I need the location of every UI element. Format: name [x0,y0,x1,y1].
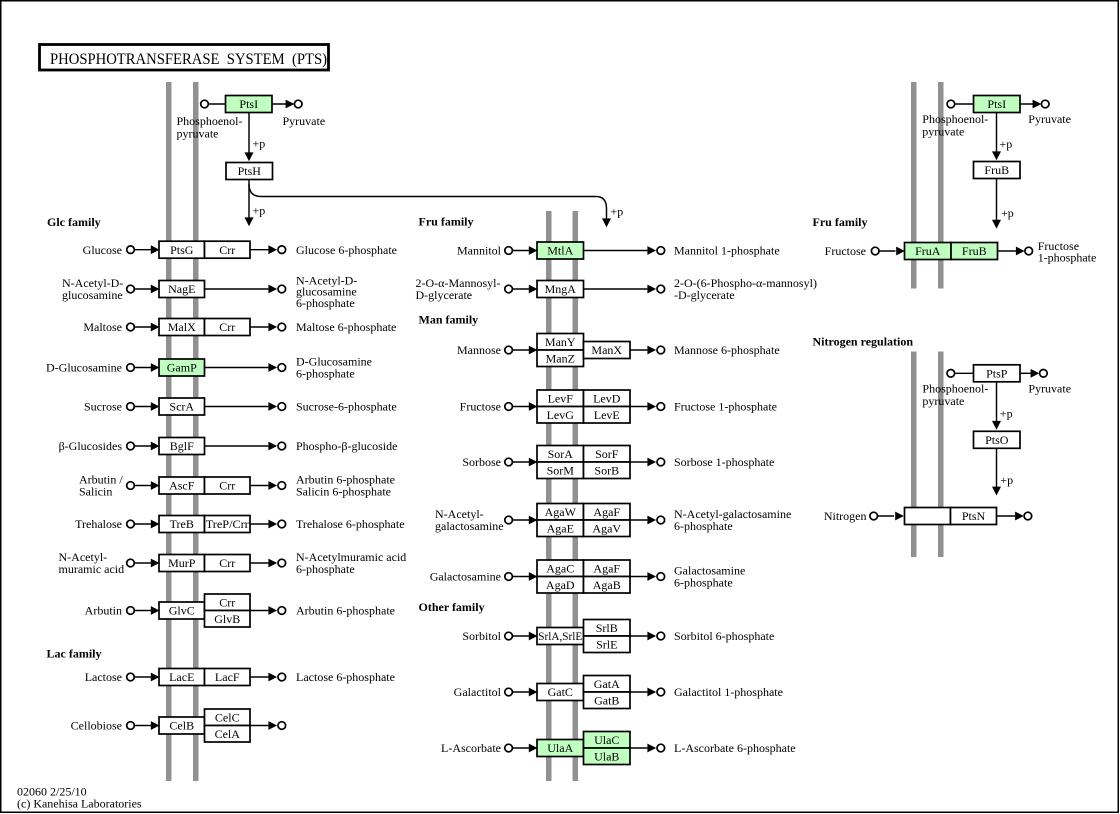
arrowhead into transporter [151,402,160,411]
arrowhead to product [268,285,277,294]
wire out of transporter [250,610,268,612]
compound circle [505,688,513,696]
node product [278,673,286,681]
wire PEP to PtsP [954,372,974,374]
svg-text:+p: +p [1001,206,1014,220]
svg-text:Cellobiose: Cellobiose [71,719,122,733]
svg-text:TreP/Crr: TreP/Crr [206,517,249,531]
arrowhead to product [268,721,277,730]
arrowhead into transporter [529,516,538,525]
compound circle [127,607,135,615]
arrowhead into FruA [896,247,905,256]
gene box MtlA [537,242,584,259]
svg-text:AgaV: AgaV [592,521,621,535]
gene box SorM [537,462,584,479]
wire PtsN out [997,515,1016,517]
compound circle [505,346,513,354]
wire PtsI down [248,113,250,158]
svg-text:CelC: CelC [215,710,240,724]
wire out of transporter [584,288,648,290]
arrowhead to product [268,481,277,490]
membrane bar left pair [166,82,172,781]
node fructose 1-phosphate [1025,247,1033,255]
arrowhead into transporter [151,520,160,529]
svg-text:Lactose: Lactose [85,670,122,684]
svg-text:ScrA: ScrA [169,400,194,414]
node phosphoenolpyruvate (nitrogen) [947,370,955,378]
arrowhead to pyruvate right [1033,100,1042,109]
gene box LacE [159,669,205,686]
svg-text:Lactose 6-phosphate: Lactose 6-phosphate [296,670,395,684]
node product [278,722,286,730]
wire into transporter [512,519,529,521]
compound circle [505,458,513,466]
node phosphoenolpyruvate (right) [947,100,955,108]
wire out of transporter [250,676,268,678]
gene box Crr [205,319,251,336]
svg-text:LevD: LevD [593,391,621,405]
gene box AgaE [537,520,584,537]
gene box FruB [974,162,1021,179]
svg-text:FruB: FruB [984,163,1009,177]
wire into transporter [512,461,529,463]
wire nitrogen in [877,515,894,517]
svg-text:1-phosphate: 1-phosphate [1038,251,1097,265]
svg-text:PHOSPHOTRANSFERASE SYSTEM (P: PHOSPHOTRANSFERASE SYSTEM (PTS) [50,51,327,68]
arrowhead to product [647,346,656,355]
svg-text:MurP: MurP [168,556,196,570]
gene box SorF [584,446,631,463]
gene box LevG [537,407,584,424]
wire into transporter [134,725,151,727]
gene box AgaF [584,504,631,521]
wire out of transporter [630,635,647,637]
svg-text:+p: +p [1000,473,1013,487]
node product [657,346,665,354]
wire into transporter [134,249,151,251]
svg-text:LacF: LacF [215,670,240,684]
gene box AgaB [584,577,631,594]
svg-text:Fructose 1-phosphate: Fructose 1-phosphate [674,400,777,414]
wire PtsH branch to Fru family [249,184,607,223]
arrowhead into transporter [529,402,538,411]
compound circle [127,559,135,567]
gene box AgaD [537,577,584,594]
wire PtsP down [996,382,998,426]
gene box PtsP [974,365,1021,382]
wire out of transporter [630,461,647,463]
svg-text:ManZ: ManZ [546,351,575,365]
svg-text:6-phosphate: 6-phosphate [296,562,355,576]
svg-text:Glc family: Glc family [47,215,101,229]
arrowhead out of PtsN [1015,512,1024,521]
svg-text:(c) Kanehisa Laboratories: (c) Kanehisa Laboratories [17,796,142,810]
compound circle [505,516,513,524]
svg-text:Pyruvate: Pyruvate [1028,112,1071,126]
arrowhead to product [647,688,656,697]
node product [657,688,665,696]
arrowhead into transporter [151,245,160,254]
svg-text:AgaC: AgaC [546,561,574,575]
wire into transporter [134,523,151,525]
svg-text:Glucose 6-phosphate: Glucose 6-phosphate [296,243,397,257]
wire out of transporter [250,249,268,251]
gene box SrlE [584,636,631,653]
compound circle [127,285,135,293]
gene box TreB [159,516,205,533]
compound circle [127,482,135,490]
svg-text:Mannitol: Mannitol [457,244,502,258]
arrowhead into transporter [151,285,160,294]
gene box CelB [159,717,205,734]
gene box NagE [159,281,205,298]
wire PtsI to pyruvate [272,103,290,105]
gene box FruB [951,243,998,260]
svg-text:galactosamine: galactosamine [435,519,504,533]
compound circle [127,323,135,331]
svg-text:UlaB: UlaB [594,749,619,763]
arrowhead into transporter [151,606,160,615]
gene box UlaA [537,740,584,757]
svg-text:PtsI: PtsI [239,97,258,111]
svg-text:Salicin: Salicin [79,485,112,499]
arrowhead to fructose 1-phosphate [1016,247,1025,256]
svg-text:Glucose: Glucose [83,243,122,257]
gene box MalX [159,319,205,336]
node product [278,520,286,528]
wire PEP to PtsI [208,103,226,105]
node product [278,364,286,372]
svg-text:AgaW: AgaW [545,505,577,519]
wire out of transporter [205,288,269,290]
arrowhead into transporter [151,442,160,451]
node phosphoenolpyruvate (left) [201,100,209,108]
svg-text:Sucrose: Sucrose [84,400,122,414]
svg-text:Arbutin 6-phosphate: Arbutin 6-phosphate [296,604,395,618]
svg-text:Salicin 6-phosphate: Salicin 6-phosphate [296,485,391,499]
gene box AgaV [584,520,631,537]
svg-text:Maltose 6-phosphate: Maltose 6-phosphate [296,320,396,334]
svg-text:Trehalose: Trehalose [75,517,122,531]
gene box ManY [537,334,584,351]
arrowhead to product [268,363,277,372]
wire into transporter [134,562,151,564]
compound circle [127,246,135,254]
svg-text:PtsI: PtsI [987,97,1006,111]
gene box SorB [584,462,631,479]
arrowhead to product [268,673,277,682]
compound circle [505,573,513,581]
arrowhead into PtsN complex [895,512,904,521]
svg-text:Nitrogen regulation: Nitrogen regulation [813,335,914,349]
node product [278,285,286,293]
gene box ManX [584,342,631,359]
wire into transporter [512,691,529,693]
wire into transporter [512,349,529,351]
arrowhead into transporter [529,346,538,355]
arrowhead into transporter [151,721,160,730]
gene box GatA [584,676,631,693]
wire out of transporter [250,485,268,487]
svg-text:Mannose 6-phosphate: Mannose 6-phosphate [674,343,780,357]
node product [278,403,286,411]
svg-text:+p: +p [253,204,266,218]
svg-text:Pyruvate: Pyruvate [1028,382,1071,396]
compound circle [505,632,513,640]
svg-text:ManY: ManY [545,335,576,349]
wire into transporter [134,445,151,447]
arrowhead to product [647,246,656,255]
wire out of transporter [250,562,268,564]
wire into transporter [134,485,151,487]
compound circle [505,403,513,411]
arrowhead into transporter [529,744,538,753]
gene box PtsG [159,241,205,258]
node product [657,573,665,581]
svg-text:AgaF: AgaF [593,505,620,519]
svg-text:+p: +p [253,137,266,151]
gene box CelA [205,726,251,743]
svg-text:pyruvate: pyruvate [177,127,219,141]
gene box SrlA,SrlE [537,628,584,645]
arrowhead into transporter [529,285,538,294]
wire into transporter [512,250,529,252]
arrowhead to product [647,632,656,641]
wire fructose in [878,250,895,252]
svg-text:MtlA: MtlA [547,244,573,258]
node product [278,323,286,331]
arrowhead to product [647,744,656,753]
wire into transporter [134,367,151,369]
svg-text:AgaF: AgaF [593,561,620,575]
svg-text:Man family: Man family [419,313,479,327]
arrowhead into transporter [529,572,538,581]
arrowhead to product [268,245,277,254]
wire into transporter [512,576,529,578]
svg-text:AgaE: AgaE [547,521,574,535]
svg-text:CelA: CelA [215,727,241,741]
svg-text:6-phosphate: 6-phosphate [296,367,355,381]
arrowhead to pyruvate [286,100,295,109]
title box PHOSPHOTRANSFERASE SYSTEM (PTS) [40,45,329,71]
svg-text:PtsH: PtsH [238,164,262,178]
wire out of transporter [250,523,268,525]
arrowhead to pyruvate (nitrogen) [1031,369,1040,378]
wire into transporter [512,635,529,637]
gene box PtsI [974,96,1021,113]
gene box GatB [584,692,631,709]
node pyruvate (right) [1041,100,1049,108]
svg-text:Arbutin: Arbutin [85,604,122,618]
svg-text:TreB: TreB [170,517,194,531]
svg-text:GlvB: GlvB [214,612,240,626]
arrowhead to product [647,572,656,581]
node product [278,482,286,490]
svg-text:Other family: Other family [419,600,485,614]
wire out of transporter [630,406,647,408]
gene box AscF [159,477,205,494]
wire PtsH down [248,180,250,223]
svg-text:SorB: SorB [594,463,619,477]
arrowhead to product [647,285,656,294]
compound circle [505,285,513,293]
arrowhead into transporter [151,481,160,490]
wire FruB out [998,250,1017,252]
gene box GamP [159,359,205,376]
svg-text:L-Ascorbate 6-phosphate: L-Ascorbate 6-phosphate [674,741,796,755]
svg-text:Pyruvate: Pyruvate [283,114,326,128]
svg-text:GatC: GatC [548,685,573,699]
gene box PtsH [226,163,273,180]
svg-text:Sucrose-6-phosphate: Sucrose-6-phosphate [296,400,397,414]
svg-text:6-phosphate: 6-phosphate [674,519,733,533]
svg-text:SrlB: SrlB [596,621,618,635]
arrowhead into transporter [151,559,160,568]
svg-text:SorF: SorF [595,447,619,461]
svg-text:Crr: Crr [219,320,235,334]
arrowhead +p to FruA [992,220,1001,229]
gene box TreP/Crr [205,516,251,533]
arrowhead +p to PtsH [245,152,254,161]
gene box Crr [205,241,251,258]
svg-text:+p: +p [611,205,624,219]
wire into transporter [512,747,529,749]
node product [278,442,286,450]
wire into transporter [134,288,151,290]
svg-text:Fru family: Fru family [813,215,868,229]
gene box Crr [205,594,251,611]
gene box CelC [205,709,251,726]
compound circle [127,403,135,411]
node pyruvate (nitrogen) [1040,370,1048,378]
gene box LevD [584,390,631,407]
compound circle [127,520,135,528]
gene box GatC [537,684,584,701]
gene box BglF [159,438,205,455]
wire out of transporter [250,725,268,727]
wire into transporter [134,326,151,328]
gene box SorA [537,446,584,463]
svg-text:Crr: Crr [219,556,235,570]
wire PtsI to pyruvate right [1020,103,1037,105]
svg-text:GlvC: GlvC [169,604,195,618]
svg-text:SorM: SorM [547,463,575,477]
gene box MngA [537,281,584,298]
gene box PtsI [226,96,273,113]
svg-text:NagE: NagE [168,282,195,296]
compound circle [505,744,513,752]
svg-text:UlaA: UlaA [547,741,573,755]
wire out of transporter [584,250,648,252]
wire out of transporter [250,326,268,328]
arrowhead to product [268,402,277,411]
arrowhead +p to Fru family [602,218,611,227]
gene box GlvB [205,611,251,628]
wire out of transporter [205,406,269,408]
svg-text:glucosamine: glucosamine [62,288,123,302]
svg-text:D-glycerate: D-glycerate [416,288,473,302]
svg-text:LevG: LevG [547,408,575,422]
gene box SrlB [584,620,631,637]
arrowhead into transporter [529,688,538,697]
svg-text:PtsP: PtsP [986,367,1008,381]
svg-text:PtsO: PtsO [985,433,1009,447]
arrowhead to product [268,520,277,529]
compound circle [127,673,135,681]
svg-text:Crr: Crr [219,595,235,609]
svg-text:6-phosphate: 6-phosphate [296,296,355,310]
svg-text:AscF: AscF [169,479,195,493]
node product [278,559,286,567]
arrowhead to product [268,442,277,451]
membrane bar right-bottom pair (nitrogen regulation) [911,352,917,558]
membrane bar middle pair [546,211,552,781]
node product [657,458,665,466]
wire PtsI right down [996,113,998,157]
arrowhead to product [268,606,277,615]
gene box ManZ [537,350,584,367]
node product [657,285,665,293]
svg-text:D-Glucosamine: D-Glucosamine [46,361,122,375]
wire into transporter [134,406,151,408]
svg-text:GamP: GamP [167,361,197,375]
wire out of transporter [205,367,269,369]
arrowhead to product [268,559,277,568]
svg-text:pyruvate: pyruvate [922,394,964,408]
gene box MurP [159,555,205,572]
svg-text:6-phosphate: 6-phosphate [674,576,733,590]
wire PtsO down [996,448,998,491]
wire out of transporter [630,349,647,351]
svg-text:Fructose: Fructose [460,400,501,414]
node pyruvate (left) [294,100,302,108]
node nitrogen [870,512,878,520]
gene box Crr [205,555,251,572]
gene box LevE [584,407,631,424]
svg-text:SorA: SorA [548,447,574,461]
arrowhead into transporter [151,673,160,682]
svg-text:PtsG: PtsG [170,243,194,257]
gene box UlaB [584,748,631,765]
arrowhead +p to FruB [992,151,1001,160]
node product [278,246,286,254]
svg-text:AgaD: AgaD [546,578,575,592]
wire out of transporter [205,445,269,447]
svg-text:+p: +p [1000,407,1013,421]
arrowhead into transporter [529,632,538,641]
svg-text:pyruvate: pyruvate [922,124,964,138]
svg-text:Sorbose: Sorbose [462,455,501,469]
arrowhead to product [647,402,656,411]
gene box PtsO [974,431,1021,448]
wire PtsP to pyruvate [1020,372,1035,374]
svg-text:LacE: LacE [169,670,194,684]
gene box AgaC [537,560,584,577]
svg-text:Sorbitol 6-phosphate: Sorbitol 6-phosphate [674,629,774,643]
node product [657,403,665,411]
gene box LacF [205,669,251,686]
arrowhead +p to PtsO [992,421,1001,430]
gene box ScrA [159,398,205,415]
arrowhead into transporter [529,246,538,255]
wire out of transporter [630,576,647,578]
svg-text:AgaB: AgaB [593,578,621,592]
wire out of transporter [630,519,647,521]
svg-text:Sorbitol: Sorbitol [462,629,501,643]
arrowhead to product [647,458,656,467]
svg-text:LevF: LevF [548,391,574,405]
gene box LevF [537,390,584,407]
